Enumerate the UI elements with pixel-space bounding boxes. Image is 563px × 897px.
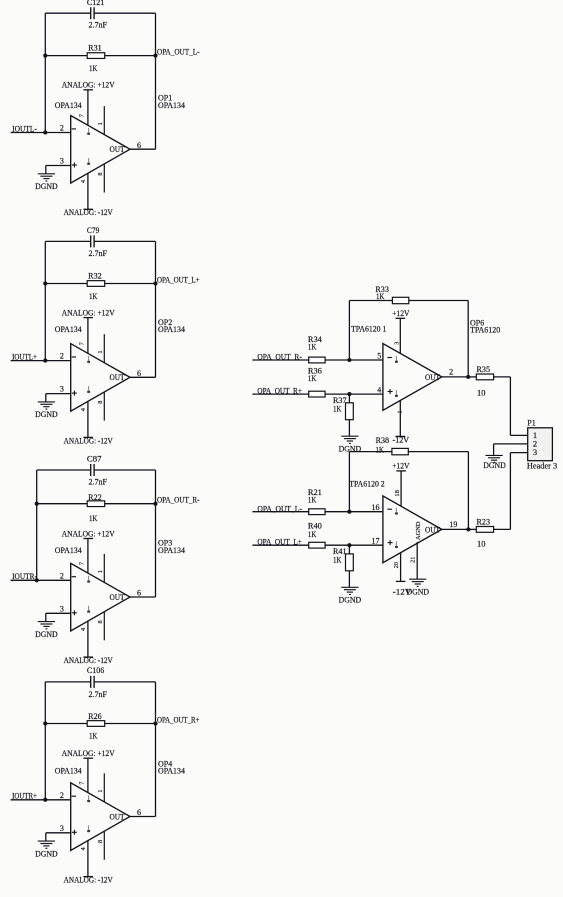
resistor R41 1K to ground <box>333 545 353 587</box>
wire pin 3 <box>46 394 71 402</box>
svg-text:1K: 1K <box>333 555 342 564</box>
svg-text:ANALOG: -12V: ANALOG: -12V <box>64 208 113 217</box>
resistor R35 10 <box>468 365 510 398</box>
wire output pin 6 <box>130 376 156 378</box>
svg-text:P1: P1 <box>527 419 535 428</box>
svg-text:1K: 1K <box>308 342 317 351</box>
svg-text:1: 1 <box>97 350 104 353</box>
wire output pin 6 <box>130 816 156 818</box>
svg-text:ANALOG: -12V: ANALOG: -12V <box>64 436 113 445</box>
ground DGND (P1 pin2) <box>486 455 503 462</box>
svg-text:OPA134: OPA134 <box>158 101 185 110</box>
node OPA_OUT_L+ / resistor R40 1K <box>252 522 383 549</box>
power ANALOG: -12V <box>64 656 113 665</box>
svg-text:18: 18 <box>394 490 401 496</box>
svg-text:DGND: DGND <box>35 630 58 639</box>
svg-text:2.7nF: 2.7nF <box>89 21 108 30</box>
power ANALOG: -12V <box>64 436 113 445</box>
svg-text:7: 7 <box>79 781 86 784</box>
svg-text:R23: R23 <box>477 517 491 526</box>
svg-text:1: 1 <box>97 122 104 125</box>
power +12V <box>392 462 410 471</box>
svg-text:20: 20 <box>393 562 400 568</box>
svg-text:2.7nF: 2.7nF <box>89 478 108 487</box>
wire R35 output to P1 pin 1 <box>510 377 527 436</box>
resistor R31 1K <box>45 43 155 73</box>
wire V+ to pin 7 <box>87 318 89 354</box>
svg-text:TPA6120 1: TPA6120 1 <box>351 325 386 334</box>
connector P1 Header 3 <box>527 419 557 471</box>
resistor R22 1K <box>37 493 156 523</box>
node IOUTR+ input <box>11 792 71 801</box>
svg-text:OUT: OUT <box>110 145 125 154</box>
wire pin 21 AGND to ground <box>416 542 418 579</box>
svg-text:1: 1 <box>398 411 404 414</box>
svg-text:7: 7 <box>79 114 86 117</box>
svg-text:DGND: DGND <box>35 849 58 858</box>
svg-text:6: 6 <box>137 369 141 378</box>
wire V+ pin <box>400 471 402 506</box>
svg-text:10: 10 <box>477 388 485 397</box>
wire feedback right vertical <box>155 682 157 817</box>
svg-text:+12V: +12V <box>392 309 410 318</box>
node OPA_OUT_L- / resistor R21 1K <box>252 488 383 514</box>
op-amp OP2 OPA134 <box>71 318 185 421</box>
wire pin 1 to V- / power -12V <box>396 400 406 436</box>
svg-text:7: 7 <box>79 562 86 565</box>
power ANALOG: +12V <box>62 308 115 317</box>
svg-text:+12V: +12V <box>392 462 410 471</box>
svg-text:DGND: DGND <box>35 410 58 419</box>
svg-text:OPA134: OPA134 <box>158 767 185 776</box>
wire feedback right vertical <box>155 470 157 597</box>
wire output pin 2 <box>442 375 470 379</box>
svg-text:2.7nF: 2.7nF <box>89 249 108 258</box>
wire pin 3 <box>46 613 71 621</box>
svg-text:1K: 1K <box>333 404 342 413</box>
wire V+ pin <box>399 318 401 353</box>
svg-text:OUT: OUT <box>425 525 440 534</box>
svg-text:3: 3 <box>533 447 537 457</box>
wire feedback <box>349 301 468 377</box>
svg-text:1K: 1K <box>308 374 317 383</box>
resistor R38 1K (feedback) <box>376 436 409 455</box>
ground DGND <box>38 402 55 409</box>
svg-text:6: 6 <box>137 589 141 598</box>
ground DGND <box>38 841 55 848</box>
svg-text:8: 8 <box>97 173 104 176</box>
svg-text:8: 8 <box>97 401 104 404</box>
svg-text:Header 3: Header 3 <box>527 461 557 470</box>
svg-text:R35: R35 <box>477 365 491 374</box>
svg-text:ANALOG: +12V: ANALOG: +12V <box>62 308 115 317</box>
svg-text:OPA134: OPA134 <box>55 767 82 776</box>
svg-text:ANALOG: -12V: ANALOG: -12V <box>64 876 113 885</box>
svg-text:3: 3 <box>393 342 400 345</box>
power ANALOG: +12V <box>62 529 115 538</box>
node IOUTL- input <box>11 124 71 133</box>
node IOUTR- input <box>11 572 71 581</box>
svg-text:R26: R26 <box>88 712 102 721</box>
svg-text:ANALOG: +12V: ANALOG: +12V <box>62 529 115 538</box>
capacitor C79 2.7nF <box>45 226 155 258</box>
ground DGND <box>341 436 358 443</box>
svg-text:1K: 1K <box>89 292 98 301</box>
capacitor C106 2.7nF <box>45 666 155 699</box>
node OPA_OUT_R+ / resistor R36 1K <box>252 367 383 398</box>
svg-text:OPA_OUT_R+: OPA_OUT_R+ <box>157 716 200 725</box>
wire feedback left vertical + node <box>43 241 47 362</box>
node IOUTL+ input <box>11 352 71 361</box>
svg-text:1K: 1K <box>376 446 385 455</box>
wire feedback right vertical <box>155 13 157 149</box>
resistor R32 1K <box>45 272 155 302</box>
node OPA_OUT_R+ <box>153 716 199 726</box>
svg-text:7: 7 <box>79 342 86 345</box>
svg-text:2: 2 <box>60 352 64 361</box>
wire pin 4 to V- <box>87 401 89 437</box>
svg-text:ANALOG: +12V: ANALOG: +12V <box>62 749 115 758</box>
svg-text:OUT: OUT <box>425 373 440 382</box>
svg-text:OPA134: OPA134 <box>55 546 82 555</box>
wire output pin 6 <box>130 596 156 598</box>
svg-text:OPA134: OPA134 <box>55 325 82 334</box>
svg-text:2.7nF: 2.7nF <box>89 690 108 699</box>
ground DGND <box>341 587 358 594</box>
svg-text:1K: 1K <box>89 514 98 523</box>
svg-text:2: 2 <box>60 791 64 800</box>
resistor R37 1K to ground <box>333 394 353 436</box>
svg-text:10: 10 <box>477 539 485 548</box>
wire P1 pin 3 to R23 output <box>510 453 527 530</box>
svg-text:5: 5 <box>377 351 381 360</box>
svg-text:2: 2 <box>449 368 453 377</box>
svg-text:OPA134: OPA134 <box>158 546 185 555</box>
wire feedback left vertical + node <box>43 13 47 134</box>
wire V+ to pin 7 <box>87 758 89 792</box>
op-amp OP1 OPA134 <box>71 94 185 193</box>
wire output pin 6 <box>130 148 156 150</box>
svg-text:C106: C106 <box>87 666 104 675</box>
power ANALOG: +12V <box>62 81 115 90</box>
node OPA_OUT_R- <box>153 496 199 506</box>
ground DGND <box>38 622 55 629</box>
svg-text:21: 21 <box>410 557 417 563</box>
capacitor C121 2.7nF <box>45 0 155 30</box>
svg-text:1K: 1K <box>308 530 317 539</box>
svg-text:TPA6120: TPA6120 <box>470 326 500 335</box>
svg-text:DGND: DGND <box>339 595 362 604</box>
svg-text:C79: C79 <box>87 226 99 235</box>
op-amp triangle TPA6120 1 <box>383 344 442 411</box>
wire pin 4 to V- <box>87 841 89 877</box>
svg-text:3: 3 <box>60 824 64 833</box>
svg-text:R32: R32 <box>88 272 102 281</box>
svg-text:OPA_OUT_L+: OPA_OUT_L+ <box>157 276 200 285</box>
svg-text:6: 6 <box>137 141 141 150</box>
svg-text:1K: 1K <box>89 64 98 73</box>
svg-text:6: 6 <box>137 808 141 817</box>
svg-text:C121: C121 <box>87 0 104 7</box>
svg-text:3: 3 <box>60 157 64 166</box>
svg-text:OPA_OUT_R-: OPA_OUT_R- <box>157 496 200 505</box>
wire pin 4 to V- <box>87 173 89 209</box>
node OPA_OUT_L+ <box>153 276 199 286</box>
resistor R23 10 <box>468 517 510 548</box>
svg-text:2: 2 <box>60 124 64 133</box>
wire feedback left vertical + node <box>35 470 39 582</box>
svg-text:ANALOG: +12V: ANALOG: +12V <box>62 81 115 90</box>
wire feedback <box>349 452 468 530</box>
op-amp triangle TPA6120 2 <box>383 496 442 563</box>
wire output pin 19 <box>442 527 471 531</box>
svg-text:R31: R31 <box>88 43 102 52</box>
svg-text:17: 17 <box>372 537 380 546</box>
svg-text:19: 19 <box>449 520 457 529</box>
resistor R26 1K <box>45 712 155 741</box>
svg-text:OPA134: OPA134 <box>158 325 185 334</box>
node OPA_OUT_R- / resistor R34 1K <box>252 335 383 363</box>
svg-text:1: 1 <box>97 790 104 793</box>
svg-text:AGND: AGND <box>415 521 422 540</box>
svg-text:OUT: OUT <box>110 593 125 602</box>
label OP6 TPA6120 <box>470 318 500 334</box>
svg-text:16: 16 <box>372 503 380 512</box>
svg-text:OPA_OUT_L-: OPA_OUT_L- <box>157 48 200 57</box>
ground DGND <box>38 174 55 181</box>
svg-text:-12V: -12V <box>393 435 410 444</box>
svg-text:3: 3 <box>60 604 64 613</box>
svg-text:C87: C87 <box>87 455 102 464</box>
svg-text:DGND: DGND <box>35 182 58 191</box>
wire pin 4 to V- <box>87 621 89 657</box>
svg-text:4: 4 <box>377 386 381 395</box>
wire P1 pin 2 to ground <box>494 444 528 456</box>
op-amp OP4 OPA134 <box>71 759 185 860</box>
wire pin 3 <box>46 833 71 841</box>
wire V+ to pin 7 <box>87 539 89 574</box>
wire pin 20 to -12V <box>396 553 406 582</box>
svg-text:1: 1 <box>97 570 104 573</box>
power ANALOG: -12V <box>64 876 113 885</box>
power ANALOG: -12V <box>64 208 113 217</box>
wire pin 3 <box>46 166 71 174</box>
svg-text:R38: R38 <box>376 436 390 445</box>
op-amp OP3 OPA134 <box>71 539 185 641</box>
svg-text:TPA6120 2: TPA6120 2 <box>349 479 384 488</box>
power ANALOG: +12V <box>62 749 115 758</box>
svg-text:1K: 1K <box>308 496 317 505</box>
svg-text:8: 8 <box>97 840 104 843</box>
wire V+ to pin 7 <box>87 90 89 126</box>
svg-text:OUT: OUT <box>110 373 125 382</box>
capacitor C87 2.7nF <box>37 455 156 487</box>
node OPA_OUT_L- <box>153 48 199 58</box>
svg-text:3: 3 <box>60 385 64 394</box>
svg-text:8: 8 <box>97 620 104 623</box>
resistor R33 1K (feedback) <box>375 285 408 304</box>
power +12V <box>392 309 410 318</box>
svg-text:2: 2 <box>60 571 64 580</box>
svg-text:OPA134: OPA134 <box>55 101 82 110</box>
ground DGND (pin21) <box>409 579 426 586</box>
svg-text:DGND: DGND <box>406 588 429 597</box>
svg-text:OUT: OUT <box>110 812 125 821</box>
svg-text:ANALOG: -12V: ANALOG: -12V <box>64 656 113 665</box>
svg-text:DGND: DGND <box>483 461 506 470</box>
wire feedback right vertical <box>155 241 157 377</box>
wire feedback left vertical + node <box>43 682 47 802</box>
svg-text:1K: 1K <box>89 731 98 740</box>
